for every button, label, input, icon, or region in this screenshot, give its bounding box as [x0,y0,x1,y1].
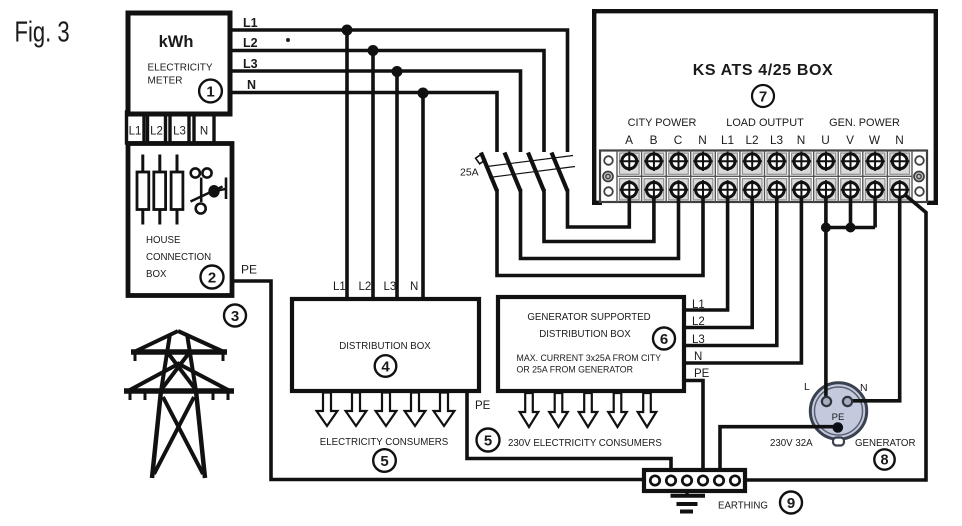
label N wire [247,78,256,92]
wire breaker N to CITY N [497,189,703,276]
label CITY POWER [628,117,697,129]
svg-text:8: 8 [880,453,888,469]
svg-text:U: U [821,133,830,147]
svg-text:DISTRIBUTION BOX: DISTRIBUTION BOX [539,329,631,340]
svg-text:L3: L3 [692,334,705,346]
terminal letters row [625,133,904,147]
svg-text:N: N [797,133,806,147]
svg-text:GENERATOR: GENERATOR [855,438,915,449]
svg-text:L1: L1 [243,16,258,30]
breaker blade pole4 [552,153,568,192]
svg-text:L2: L2 [359,281,372,293]
wire LOAD L1 to gen box [684,190,728,310]
ATS terminal strip body [600,151,927,203]
label L1 genbox [692,299,705,311]
svg-text:PE: PE [694,368,710,380]
svg-text:N: N [694,351,702,363]
circled 2 [201,266,224,289]
svg-text:METER: METER [148,76,183,87]
fuse F3 [171,155,183,225]
svg-text:HOUSE: HOUSE [146,235,181,246]
svg-text:N: N [200,126,208,138]
svg-text:N: N [410,281,418,293]
svg-text:N: N [860,382,868,394]
svg-text:PE: PE [241,263,257,277]
wire N branch to distribution box [421,93,425,299]
svg-text:GEN. POWER: GEN. POWER [829,117,900,129]
wire GEN bridge U-V-W [826,226,875,230]
wire GEN N to socket N [852,190,900,401]
stray dot [286,38,290,42]
circled 8 [874,449,894,469]
label PE house [241,263,257,277]
svg-text:CITY POWER: CITY POWER [628,117,697,129]
svg-text:A: A [625,133,633,147]
circled 5a [373,449,396,472]
svg-text:L1: L1 [692,299,705,311]
wire N-PE bond to earthing [746,191,926,480]
label electricity consumers [320,437,449,448]
svg-text:W: W [869,133,881,147]
svg-text:KS ATS 4/25 BOX: KS ATS 4/25 BOX [693,62,834,79]
svg-text:L: L [804,381,810,393]
disconnect/cut symbol [191,168,227,213]
svg-text:GENERATOR SUPPORTED: GENERATOR SUPPORTED [527,312,650,323]
svg-text:BOX: BOX [146,269,167,280]
circled 3 [224,305,246,327]
breaker label 25A [460,167,479,179]
svg-text:ELECTRICITY: ELECTRICITY [148,63,213,74]
svg-text:L1: L1 [129,126,142,138]
svg-text:LOAD OUTPUT: LOAD OUTPUT [726,117,804,129]
svg-text:L3: L3 [770,133,784,147]
wire socket PE to earthing [720,427,834,472]
wire LOAD L2 to gen box [684,190,752,328]
node V bridge [846,223,856,233]
fuse F1 [137,155,149,225]
wire breaker L1 to CITY A [568,189,630,227]
svg-text:kWh: kWh [159,33,194,51]
svg-text:L2: L2 [243,36,258,50]
wire LOAD L3 to gen box [684,190,777,346]
label L2 wire [243,36,258,50]
circled 9 [780,492,802,514]
ground symbol [671,491,706,512]
generator socket pins and PE [822,397,852,433]
label 230V 32A [770,438,813,449]
svg-text:7: 7 [759,89,767,106]
svg-text:L3: L3 [384,281,397,293]
svg-text:9: 9 [787,495,795,512]
node L2 junction [368,45,379,56]
label EARTHING [718,501,768,512]
ATS terminal screws [620,152,910,200]
wire L3 meter to breaker pole2 [230,71,521,152]
svg-text:L3: L3 [173,126,186,138]
label GEN. POWER [829,117,900,129]
KS ATS 4/25 BOX [592,9,938,205]
wire GEN V stub [849,190,853,228]
svg-text:230V ELECTRICITY CONSUMERS: 230V ELECTRICITY CONSUMERS [508,438,662,449]
svg-text:B: B [650,133,658,147]
label L socket [804,381,810,393]
node L1 junction [342,25,353,36]
circled 7 [752,85,774,107]
consumer arrows group 2 [520,393,657,427]
svg-text:4: 4 [381,359,390,376]
fuse F2 [154,155,166,225]
label 230V electricity consumers [508,438,662,449]
svg-text:N: N [698,133,707,147]
figure label Fig. 3 [15,17,70,49]
wire L3 branch to distribution box [395,72,399,300]
label L2 genbox [692,316,705,328]
svg-text:L1: L1 [721,133,734,147]
svg-text:L2: L2 [150,126,163,138]
svg-text:2: 2 [208,270,216,287]
label L2 dist entry [359,281,372,293]
svg-text:230V 32A: 230V 32A [770,438,813,449]
svg-text:N: N [895,133,904,147]
breaker handle square [476,154,486,164]
wire L2 branch to distribution box [371,51,375,300]
svg-text:25A: 25A [460,167,479,179]
wire N meter to breaker pole1 [230,93,497,153]
label L3 wire [243,57,258,71]
circled 5b [477,429,500,452]
transmission tower [124,331,234,478]
label PE genbox [694,368,710,380]
svg-text:PE: PE [475,400,491,412]
meter terminal L2 [148,112,166,143]
svg-text:5: 5 [380,453,388,470]
label N socket [860,382,868,394]
label LOAD OUTPUT [726,117,804,129]
svg-text:5: 5 [484,433,492,450]
label L3 dist entry [384,281,397,293]
svg-text:L1: L1 [333,281,346,293]
circled 6 [653,328,675,350]
svg-text:6: 6 [660,331,668,348]
svg-text:MAX. CURRENT 3x25A FROM CITY: MAX. CURRENT 3x25A FROM CITY [517,353,662,363]
wire PE house box to earthing [231,281,646,480]
svg-text:3: 3 [231,308,239,325]
meter terminal L3 [170,112,189,143]
svg-text:L2: L2 [692,316,705,328]
DISTRIBUTION BOX [292,299,479,391]
wire LOAD N to gen box [684,190,801,363]
wire breaker L3 to CITY C [521,189,679,259]
wire L1 meter to breaker pole4 [230,30,568,152]
ELECTRICITY METER box [128,13,230,114]
label N genbox [694,351,702,363]
svg-text:L3: L3 [243,57,258,71]
svg-text:C: C [674,133,683,147]
label L1 dist entry [333,281,346,293]
consumer arrows group 1 [317,393,455,427]
svg-text:OR 25A FROM GENERATOR: OR 25A FROM GENERATOR [517,365,634,375]
wire PE gen box to earthing [684,381,703,473]
GENERATOR SUPPORTED DISTRIBUTION BOX [498,297,684,391]
node N junction [418,88,429,99]
wire breaker L2 to CITY B [544,189,654,242]
circled 4 [375,355,397,377]
node L3 junction [392,66,403,77]
wire PE distribution box to earthing [467,391,671,472]
earthing terminal block [644,470,745,491]
svg-text:EARTHING: EARTHING [718,501,768,512]
meter terminal N [194,112,214,143]
svg-text:Fig. 3: Fig. 3 [15,17,70,49]
breaker blade pole2 [505,153,521,192]
label PE dist [475,400,491,412]
breaker linkage [487,156,575,178]
svg-text:1: 1 [206,84,214,101]
label N dist entry [410,281,418,293]
circled 1 [199,80,222,103]
svg-text:L2: L2 [745,133,758,147]
breaker blade pole3 [528,153,544,192]
label L3 genbox [692,334,705,346]
HOUSE CONNECTION BOX [128,144,232,296]
svg-text:PE: PE [832,412,845,423]
breaker blade pole1 [481,153,497,192]
generator socket body [810,383,866,446]
svg-text:V: V [846,133,854,147]
svg-text:CONNECTION: CONNECTION [146,252,211,263]
wire L1 branch to distribution box [345,30,349,299]
wire GEN W stub [873,190,877,228]
svg-text:N: N [247,78,256,92]
meter terminal L1 [127,112,145,143]
wire L2 meter to breaker pole3 [230,51,544,153]
node U bridge [821,223,831,233]
svg-text:DISTRIBUTION BOX: DISTRIBUTION BOX [339,341,431,352]
wire GEN U to socket L [824,190,828,400]
svg-text:ELECTRICITY CONSUMERS: ELECTRICITY CONSUMERS [320,437,449,448]
label GENERATOR [855,438,915,449]
label L1 wire [243,16,258,30]
